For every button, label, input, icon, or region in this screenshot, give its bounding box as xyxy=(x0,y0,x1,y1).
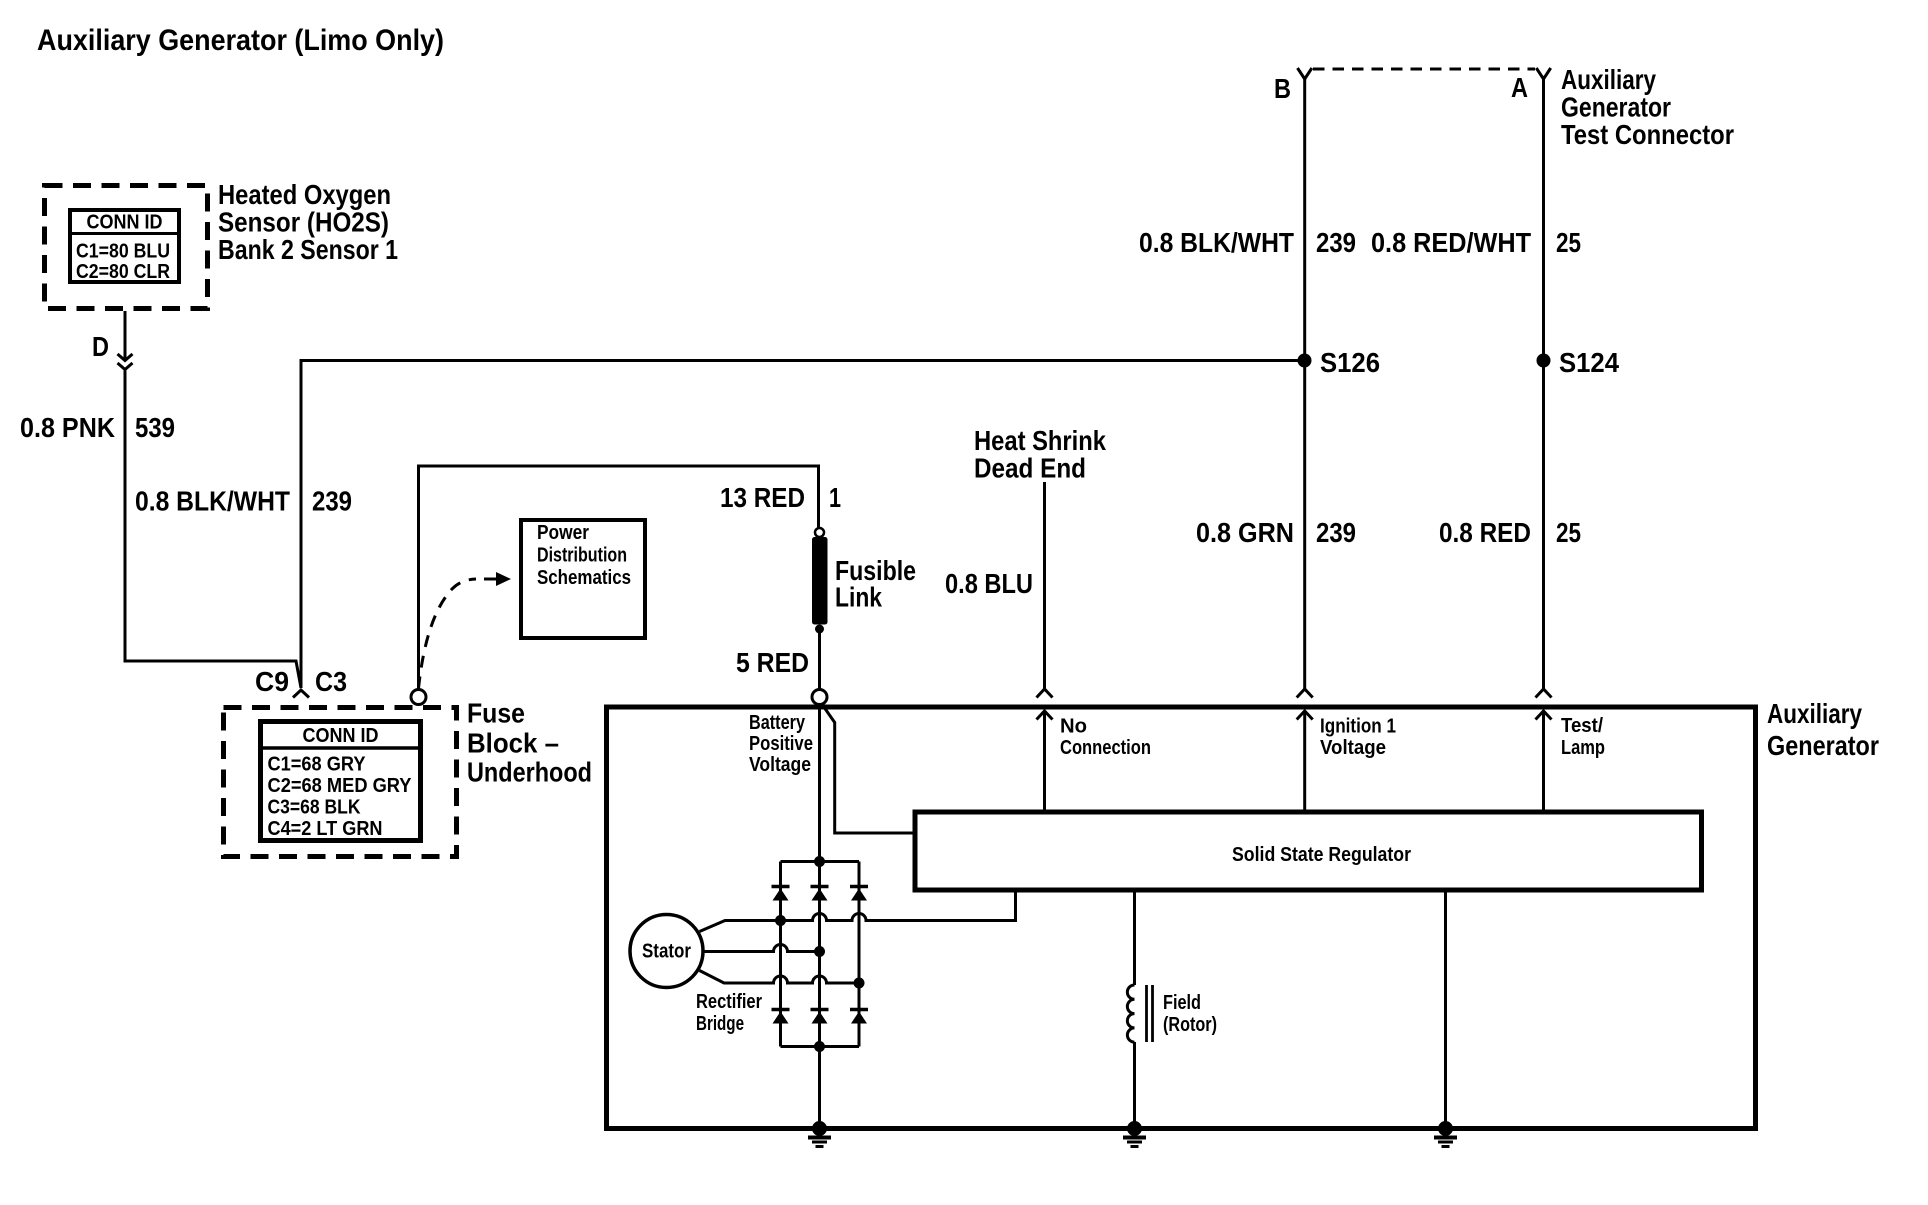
svg-text:Lamp: Lamp xyxy=(1561,737,1605,759)
svg-text:C2=80 CLR: C2=80 CLR xyxy=(76,261,170,283)
svg-text:Ignition 1: Ignition 1 xyxy=(1320,716,1396,738)
wire: field coil to case ground xyxy=(1133,1042,1136,1127)
svg-text:0.8 BLU: 0.8 BLU xyxy=(945,568,1033,599)
svg-text:C4=2 LT GRN: C4=2 LT GRN xyxy=(268,818,383,840)
svg-text:Generator: Generator xyxy=(1561,92,1671,123)
wire: stator phase 1 to bridge left leg and regulator sense xyxy=(700,890,1016,932)
svg-text:Field: Field xyxy=(1163,992,1201,1014)
svg-text:Rectifier: Rectifier xyxy=(696,991,762,1013)
svg-text:25: 25 xyxy=(1556,517,1581,548)
wire: battery stud down to rectifier bridge xyxy=(818,705,821,862)
diode (lower, leg 3) xyxy=(850,1010,868,1024)
svg-text:Heat Shrink: Heat Shrink xyxy=(974,425,1106,456)
wire: 0.8 BLK/WHT 239 / 0.8 GRN 239, test connector B through S126 to Ignition 1 Voltage xyxy=(1303,79,1306,689)
connector: Auxiliary Generator Test Connector terminal B (Y) xyxy=(1298,68,1312,79)
terminal chevrons at Ignition 1 Voltage xyxy=(1297,689,1313,720)
wire: regulator to field coil xyxy=(1133,890,1136,985)
svg-text:1: 1 xyxy=(829,482,841,513)
wire: battery stud tap to solid state regulator xyxy=(823,705,914,833)
node: bridge bottom center junction xyxy=(814,1041,825,1052)
svg-text:13 RED: 13 RED xyxy=(720,482,805,513)
HO2S CONN ID table box xyxy=(70,210,179,282)
svg-text:S126: S126 xyxy=(1320,347,1380,378)
node: bridge top center junction xyxy=(814,856,825,867)
fusible link symbol (open circle, heavy bar, dot) xyxy=(812,528,828,634)
reference box: Power Distribution Schematics xyxy=(521,520,645,638)
svg-text:Bridge: Bridge xyxy=(696,1013,744,1035)
svg-text:Sensor (HO2S): Sensor (HO2S) xyxy=(218,207,389,238)
wire: 13 RED circuit 1, fuse block stud to fusible link xyxy=(419,466,819,690)
svg-text:Dead End: Dead End xyxy=(974,453,1086,484)
node: generator battery positive stud (open circle) xyxy=(812,690,827,705)
terminal chevrons at No Connection xyxy=(1037,689,1053,720)
svg-text:Test/: Test/ xyxy=(1561,715,1603,737)
component box: Auxiliary Generator xyxy=(607,707,1756,1129)
svg-text:Auxiliary: Auxiliary xyxy=(1767,698,1862,729)
svg-text:0.8 RED/WHT: 0.8 RED/WHT xyxy=(1371,227,1531,258)
svg-text:Solid State Regulator: Solid State Regulator xyxy=(1232,844,1411,866)
svg-text:Stator: Stator xyxy=(642,941,691,963)
ground G2 on generator case xyxy=(1123,1121,1146,1147)
svg-text:(Rotor): (Rotor) xyxy=(1163,1014,1217,1036)
svg-text:Heated Oxygen: Heated Oxygen xyxy=(218,179,391,210)
svg-text:539: 539 xyxy=(135,412,175,443)
svg-text:Battery: Battery xyxy=(749,712,806,734)
svg-text:0.8 GRN: 0.8 GRN xyxy=(1196,517,1294,548)
wire: 0.8 BLU heat shrink dead end to generator No Connection xyxy=(1043,482,1046,689)
wire: No Connection terminal to regulator xyxy=(1043,711,1046,812)
svg-text:Generator: Generator xyxy=(1767,730,1879,761)
svg-text:D: D xyxy=(92,331,109,362)
connector: terminal A (Y) xyxy=(1536,68,1550,79)
svg-text:Power: Power xyxy=(537,522,589,544)
ground G1 on generator case xyxy=(808,1121,831,1147)
rectifier bridge rails and legs xyxy=(781,862,860,1047)
svg-text:Voltage: Voltage xyxy=(1320,737,1386,759)
svg-text:Positive: Positive xyxy=(749,733,813,755)
connector: Heated Oxygen Sensor (HO2S) Bank 2 Sensor 1, dashed outline xyxy=(45,186,208,309)
svg-text:C3: C3 xyxy=(315,666,347,697)
svg-text:Schematics: Schematics xyxy=(537,567,631,589)
wire: 0.8 BLK/WHT 239 from S126 splice to fuse block C3 xyxy=(301,361,1305,689)
svg-text:S124: S124 xyxy=(1559,347,1619,378)
svg-text:0.8 BLK/WHT: 0.8 BLK/WHT xyxy=(135,486,290,517)
svg-text:239: 239 xyxy=(1316,227,1356,258)
connector: Fuse Block - Underhood, dashed outline xyxy=(224,708,457,857)
terminal chevrons at Test/Lamp xyxy=(1536,689,1552,720)
wire: bridge bottom to case ground xyxy=(818,1047,821,1128)
splice S126 xyxy=(1298,354,1312,368)
field coil core bars xyxy=(1147,985,1153,1042)
svg-text:C1=80 BLU: C1=80 BLU xyxy=(76,241,170,263)
diode (upper, leg 2) xyxy=(811,887,829,901)
svg-text:0.8 RED: 0.8 RED xyxy=(1439,517,1531,548)
ground G3 on generator case xyxy=(1434,1121,1457,1147)
node: phase 1 junction on left leg xyxy=(775,915,786,926)
wire: regulator to case ground (right) xyxy=(1444,890,1447,1127)
dashed reference arrow to Power Distribution Schematics xyxy=(419,579,477,689)
field (rotor) coil xyxy=(1127,985,1134,1042)
svg-text:Underhood: Underhood xyxy=(467,757,592,788)
diode (upper, leg 1) xyxy=(772,887,790,901)
diode (lower, leg 1) xyxy=(772,1010,790,1024)
svg-text:Test Connector: Test Connector xyxy=(1561,119,1734,150)
wire: 0.8 RED/WHT 25 / 0.8 RED 25, test connector A through S124 to Test/Lamp xyxy=(1542,79,1545,689)
svg-text:5 RED: 5 RED xyxy=(736,647,809,678)
svg-text:Auxiliary: Auxiliary xyxy=(1561,64,1656,95)
wire: stator phase 3 to bridge right leg xyxy=(700,971,860,984)
wire: 5 RED, fusible link to generator BAT stud xyxy=(818,632,821,689)
node: phase 3 junction on right leg xyxy=(854,978,865,989)
wire: Ignition 1 Voltage terminal to regulator xyxy=(1303,711,1306,812)
Fuse Block CONN ID table box xyxy=(261,722,421,841)
svg-text:C1=68 GRY: C1=68 GRY xyxy=(268,754,367,776)
component box: Solid State Regulator xyxy=(915,812,1702,890)
svg-text:239: 239 xyxy=(312,486,352,517)
svg-text:CONN ID: CONN ID xyxy=(87,212,163,234)
svg-text:C3=68 BLK: C3=68 BLK xyxy=(268,797,361,819)
wire: stator phase 2 to bridge middle leg xyxy=(703,945,820,952)
node: fuse block battery stud (open circle) xyxy=(411,690,426,705)
svg-text:CONN ID: CONN ID xyxy=(303,725,379,747)
dashed connector body line between B and A xyxy=(1313,68,1535,71)
svg-text:Fuse: Fuse xyxy=(467,698,525,729)
diode (upper, leg 3) xyxy=(850,887,868,901)
svg-text:B: B xyxy=(1274,73,1291,104)
svg-text:C9: C9 xyxy=(255,666,289,697)
svg-text:No: No xyxy=(1060,716,1087,738)
svg-text:Connection: Connection xyxy=(1060,737,1151,759)
diode (lower, leg 2) xyxy=(811,1010,829,1024)
svg-text:Voltage: Voltage xyxy=(749,754,811,776)
stator winding circle xyxy=(630,915,703,988)
svg-text:A: A xyxy=(1511,72,1528,103)
svg-text:Bank 2 Sensor 1: Bank 2 Sensor 1 xyxy=(218,234,398,265)
svg-text:Auxiliary Generator (Limo Only: Auxiliary Generator (Limo Only) xyxy=(37,24,444,57)
svg-text:Distribution: Distribution xyxy=(537,545,627,567)
fuse block C3 terminal chevron xyxy=(293,690,309,698)
svg-text:Link: Link xyxy=(835,582,882,613)
svg-text:239: 239 xyxy=(1316,517,1356,548)
node: phase 2 junction on middle leg xyxy=(814,946,825,957)
splice S124 xyxy=(1537,354,1551,368)
wire: Test/Lamp terminal to regulator xyxy=(1542,711,1545,812)
svg-text:0.8 PNK: 0.8 PNK xyxy=(20,412,115,443)
svg-text:C2=68 MED GRY: C2=68 MED GRY xyxy=(268,775,413,797)
wire: 0.8 PNK 539 from HO2S pin D to fuse block C9 xyxy=(125,311,301,688)
pin D out-connector double chevron xyxy=(118,354,133,370)
svg-text:25: 25 xyxy=(1556,227,1581,258)
svg-text:Block –: Block – xyxy=(467,728,559,759)
svg-text:0.8 BLK/WHT: 0.8 BLK/WHT xyxy=(1139,227,1294,258)
